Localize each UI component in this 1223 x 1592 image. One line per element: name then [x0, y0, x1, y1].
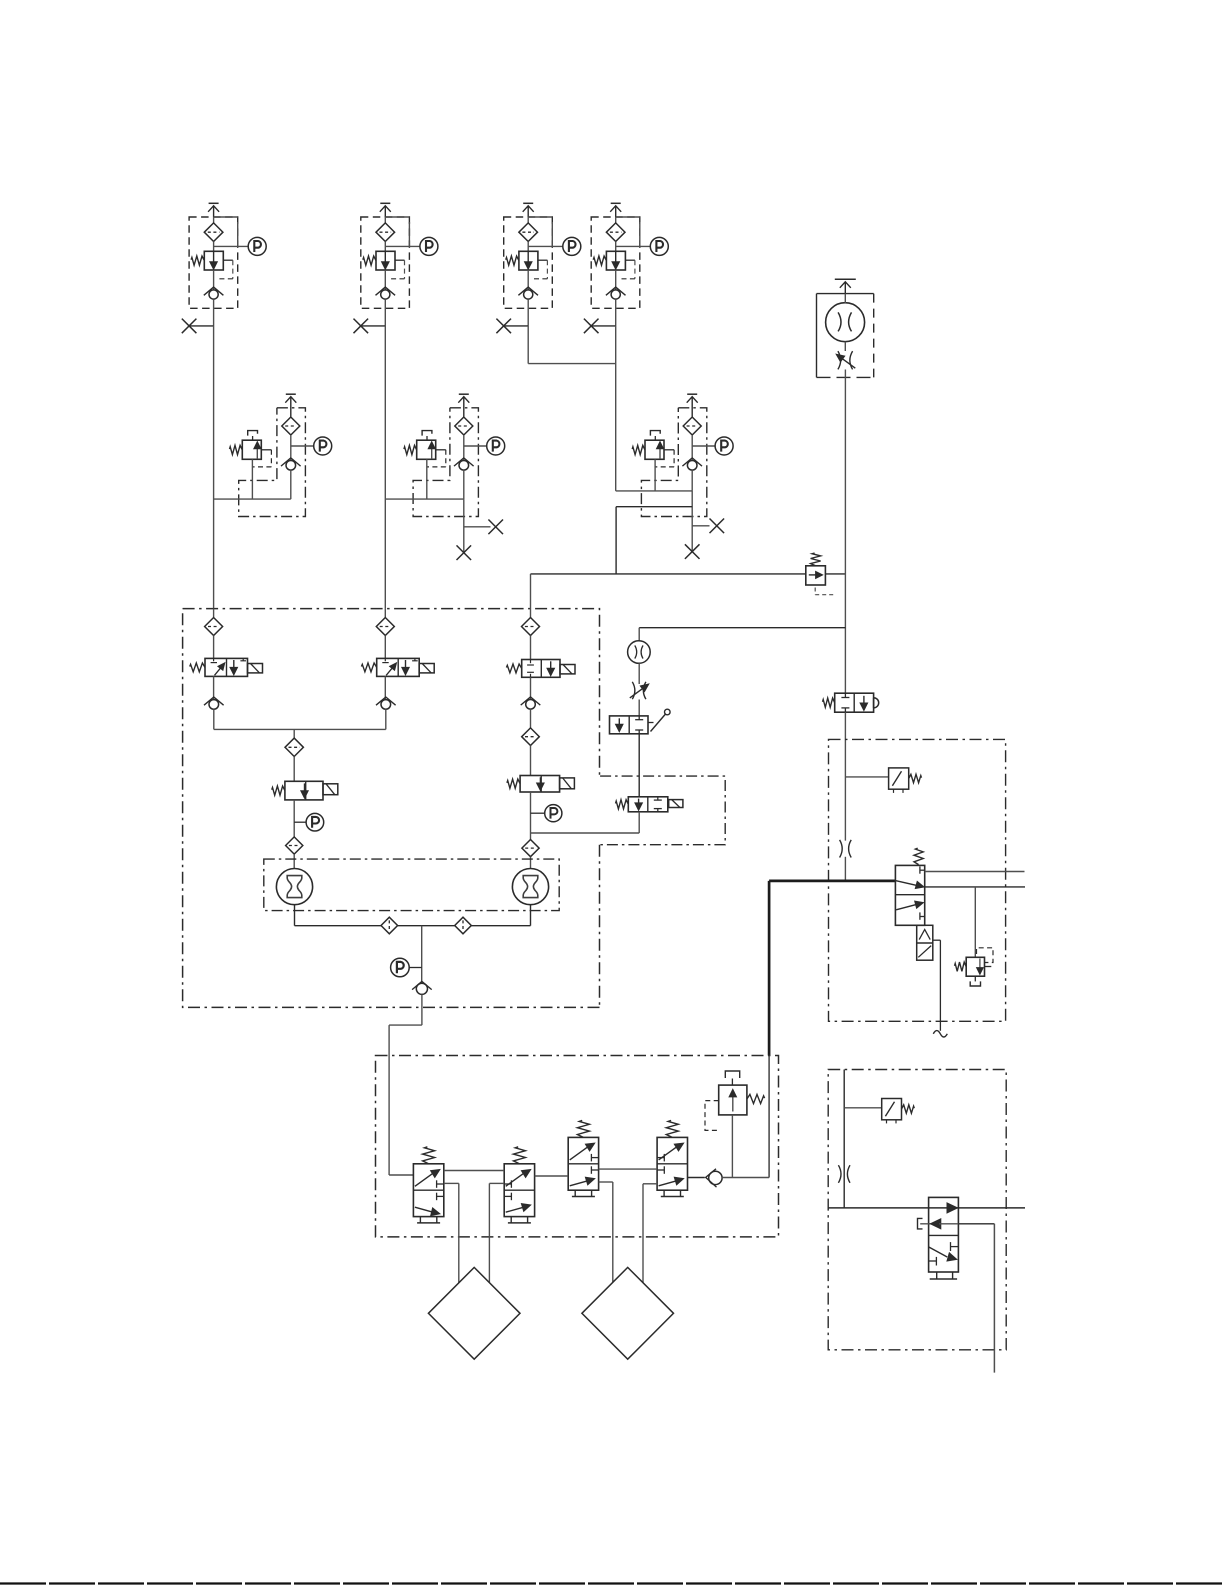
valve V5 (3/2 pilot operated): [895, 865, 924, 925]
push-button valve PB (2/2): [835, 693, 874, 712]
relief valve R5: [977, 948, 994, 963]
plugged port X RV2 end: [457, 545, 472, 560]
wire RV3 outlet tap: [616, 506, 692, 508]
check valve CV8: [706, 1169, 717, 1187]
page edge line: [0, 1582, 1223, 1584]
wire V5 outlet A: [925, 871, 1025, 873]
wire PB down into manifold R1: [844, 712, 846, 840]
wire B1-B2: [444, 1170, 504, 1172]
filter F12: [285, 738, 303, 756]
wire to SOL3: [293, 757, 295, 782]
plugged port X RV3 end: [685, 544, 700, 559]
plugged port X RV3 branch: [710, 519, 725, 534]
drain squiggle: [933, 1031, 947, 1037]
filter-regulator module FR1 (air prep, line 1): [182, 203, 266, 333]
station-3 check valve CV3: [530, 677, 532, 699]
wire below SOL4: [530, 792, 532, 840]
filter F14: [522, 840, 539, 857]
wire B1 to nozzle D1 left: [444, 1182, 459, 1184]
wire to flow indicator FI2: [530, 857, 532, 869]
wire B4 outlet: [688, 1177, 705, 1179]
station-2 inlet filter F2: [384, 609, 386, 618]
solenoid valve SOL5 (2/2): [628, 797, 668, 812]
valve V6 (shuttle/check block): [929, 1197, 959, 1272]
wire heavy supply to valve V5: [769, 880, 895, 883]
wire SOL5 to station-3: [638, 812, 640, 833]
station-3 inlet filter F3: [522, 618, 540, 636]
check valve CV7: [412, 981, 432, 989]
orifice check OC2: [455, 917, 472, 934]
enclosure flow-indicator sub-box: [264, 859, 559, 911]
wire line-1 FR1 down to manifold: [213, 326, 215, 609]
pressure reducing valve PRV: [806, 566, 826, 585]
filter-regulator module FR4 (air prep, line 4): [584, 203, 668, 333]
orifice restrictor OR1: [840, 840, 843, 858]
wire R2 drop: [843, 1070, 845, 1208]
wire PRV outlet: [825, 573, 845, 575]
wire supply header: [531, 573, 806, 575]
wire B3-B4: [599, 1168, 658, 1170]
flow indicator FI3: [638, 628, 640, 641]
wire line-3 FR3 down: [527, 326, 529, 364]
filter F13: [286, 837, 303, 854]
orifice restrictor OR2: [838, 1165, 841, 1183]
station-3 solenoid valve SV3 (3/2 closed): [522, 660, 560, 678]
wire line-3 join line-4: [528, 363, 616, 365]
throttle valve TV (adjustable): [638, 663, 640, 684]
solenoid valve SOL3 (2/2): [285, 781, 323, 800]
pilot stack below V5: [917, 925, 933, 960]
enclosure manifold M (dash-dot): [183, 609, 600, 777]
lever valve LVR (2/2 manual): [638, 700, 640, 716]
station-1 inlet filter F1: [213, 609, 215, 618]
wire merge stations 1+2: [213, 709, 215, 729]
wire B3 to nozzle D2 left: [599, 1181, 613, 1183]
station-2 solenoid valve SV2 (3/2): [377, 658, 420, 676]
valve B4 (3/2 spring): [657, 1137, 687, 1190]
orifice check OC1: [381, 917, 398, 934]
relief-vent module RV2 on line 2: [385, 394, 504, 516]
flow indicator FI1: [276, 869, 312, 905]
relief-vent module RV1 on line 1: [214, 394, 332, 516]
enclosure small solenoid box: [600, 776, 725, 845]
flow meter FM (with vent): [835, 278, 856, 280]
wire to SOL4: [530, 746, 532, 776]
wire below SOL3: [293, 800, 295, 837]
enclosure control box R1: [829, 739, 1006, 1021]
filter-regulator module FR2 (air prep, line 2): [354, 203, 438, 333]
wire RV3 drain down: [691, 491, 693, 552]
solenoid valve SOL4 (2/2): [520, 776, 560, 793]
gauge P3b branch: [531, 812, 545, 814]
wire R6 drain: [731, 1115, 733, 1178]
wire LVR to SOL5: [638, 734, 640, 797]
wire RV3 drain branch: [692, 525, 709, 527]
station-1 check valve CV1: [213, 676, 215, 699]
wire line-2 FR2 down to manifold: [384, 326, 386, 609]
wire V5 outlet B: [925, 886, 1025, 888]
wire RV2 drain branch: [464, 526, 491, 528]
pressure switch PS1: [845, 776, 888, 778]
gauge P3a branch: [294, 821, 306, 823]
wire manifold outlet: [421, 994, 423, 1025]
gauge P7 branch: [409, 967, 422, 969]
wire pilot drain: [933, 939, 941, 941]
station-1 solenoid valve SV1 (3/2): [205, 658, 248, 676]
valve B3 (3/2 spring): [568, 1137, 598, 1190]
wire V6 pilot out: [958, 1223, 994, 1225]
wire R2 main line: [828, 1207, 1025, 1209]
wire to flow indicator FI1: [293, 854, 295, 868]
valve B2 (3/2 spring): [504, 1164, 534, 1217]
plugged port X RV2 branch: [488, 520, 503, 535]
valve B1 (3/2 spring): [413, 1164, 443, 1217]
nozzle D1: [428, 1267, 520, 1359]
enclosure valve box B (dash-dot): [376, 1056, 779, 1237]
wire FI1 down: [294, 905, 296, 926]
wire FI2 down: [530, 905, 532, 926]
wire B2 to nozzle D1 right: [489, 1182, 504, 1184]
flow indicator FI2: [512, 869, 548, 905]
pressure switch PS2: [844, 1107, 882, 1109]
filter-regulator module FR3 (air prep, line 3): [496, 203, 580, 333]
relief-vent module RV3 on line 4: [616, 394, 733, 516]
wire B2-B3: [535, 1175, 569, 1177]
wire B4 to nozzle D2 right: [643, 1183, 657, 1185]
wire to relief R5: [974, 887, 976, 957]
wire line-4 down to vent module RV3: [615, 326, 617, 491]
wire CV8 to riser: [722, 1177, 769, 1179]
filter F3b: [530, 709, 532, 728]
junction dot supply/drop: [844, 573, 846, 575]
nozzle D2: [582, 1267, 674, 1359]
wire purge branch header: [639, 627, 845, 629]
wire collector down: [421, 926, 423, 983]
relief valve R6: [725, 1071, 739, 1078]
wire RV2 drain down: [463, 499, 465, 553]
wire main drop from FM: [844, 370, 846, 694]
wire heavy riser: [768, 881, 771, 1056]
station-2 check valve CV2: [384, 676, 386, 699]
enclosure control box R2: [828, 1070, 1006, 1350]
wire collector: [295, 925, 531, 927]
station-3 drop from header: [530, 574, 532, 618]
